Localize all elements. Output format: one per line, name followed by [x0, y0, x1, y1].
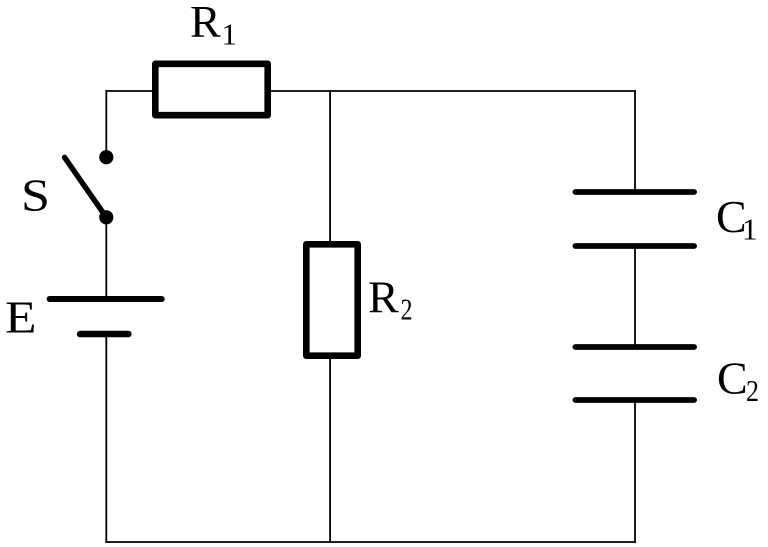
svg-text:R: R: [190, 0, 221, 47]
switch S: blade: [65, 157, 107, 217]
svg-text:2: 2: [401, 291, 413, 326]
battery E: short plate: [80, 331, 128, 338]
wire: bottom horizontal: [105, 541, 636, 543]
svg-text:S: S: [21, 170, 50, 221]
wire: right rail from C2 to bottom wire: [634, 400, 636, 543]
svg-text:1: 1: [222, 16, 238, 51]
capacitor C1: top plate: [575, 189, 694, 195]
switch S: bottom terminal dot: [99, 210, 113, 224]
capacitor C2: bottom plate: [575, 397, 694, 403]
wire: left rail between switch and battery: [105, 216, 107, 299]
svg-text:C: C: [717, 353, 748, 404]
wire: middle rail lower segment (R2 bottom to bottom wire): [329, 356, 331, 543]
svg-text:E: E: [5, 291, 37, 342]
svg-text:2: 2: [746, 373, 759, 408]
wire: right rail between C1 and C2: [634, 246, 636, 347]
resistor R1: [155, 64, 267, 115]
wire: right rail upper segment (top wire to C1 top plate): [634, 90, 636, 192]
wire: left rail upper segment (to switch top dot): [105, 90, 107, 152]
battery E: long plate: [50, 296, 162, 302]
wire: top-left horizontal from left rail to R1: [105, 90, 155, 92]
switch S: top terminal dot: [99, 150, 113, 164]
wire: left rail from battery to bottom wire: [105, 334, 107, 543]
wire: middle rail upper segment (junction to R2 top): [329, 90, 331, 244]
resistor R2: [306, 244, 357, 355]
svg-text:R: R: [368, 272, 399, 323]
capacitor C2: top plate: [575, 344, 694, 350]
capacitor C1: bottom plate: [575, 243, 694, 249]
wire: top horizontal from R1 to right rail: [268, 90, 636, 92]
svg-text:1: 1: [742, 211, 758, 246]
